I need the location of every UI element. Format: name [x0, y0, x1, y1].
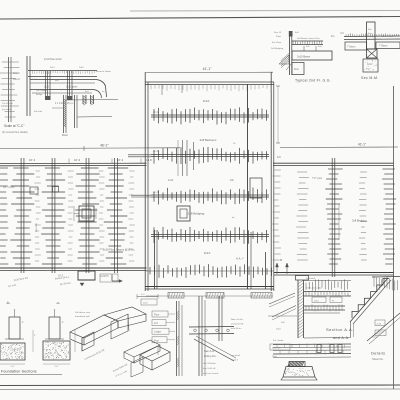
svg-text:46'-1": 46'-1": [100, 144, 109, 148]
svg-text:2x8 Bridging: 2x8 Bridging: [271, 47, 284, 50]
svg-text:see detail: see detail: [231, 354, 240, 357]
svg-text:Fin. Floor: Fin. Floor: [272, 41, 282, 44]
svg-text:41'-1": 41'-1": [358, 143, 366, 147]
svg-text:Foundation Sections: Foundation Sections: [1, 370, 37, 374]
svg-text:2x8 Beams above Post: 2x8 Beams above Post: [297, 37, 320, 40]
svg-text:sheet 3: sheet 3: [231, 359, 239, 362]
svg-text:Conc: Conc: [367, 64, 373, 66]
svg-text:2x10 Plate Girder: 2x10 Plate Girder: [44, 58, 62, 61]
svg-text:Plate: Plate: [272, 355, 278, 358]
svg-text:Post: Post: [154, 339, 159, 342]
svg-text:pier below: pier below: [2, 108, 12, 111]
svg-text:2x10: 2x10: [203, 99, 210, 103]
svg-text:M: M: [280, 258, 282, 262]
svg-text:2x10 Floor Beams @16 o.c.: 2x10 Floor Beams @16 o.c.: [103, 248, 135, 252]
svg-text:2x10: 2x10: [143, 303, 149, 305]
svg-text:2x10: 2x10: [79, 67, 85, 69]
svg-text:2x8 Ledger: 2x8 Ledger: [36, 89, 47, 92]
svg-text:2x8 Bedroom: 2x8 Bedroom: [200, 138, 217, 142]
svg-text:Typical 2nd Fl. G.G.: Typical 2nd Fl. G.G.: [295, 79, 331, 83]
svg-text:hall: hall: [230, 180, 234, 182]
svg-text:2x10: 2x10: [204, 251, 211, 255]
svg-text:2x10 Joists 16oc: 2x10 Joists 16oc: [306, 287, 323, 290]
svg-text:Note: all sills: Note: all sills: [231, 318, 243, 321]
svg-text:3x12: 3x12: [50, 67, 56, 69]
svg-text:foundation wall: foundation wall: [75, 315, 90, 318]
svg-text:Sec A.A.: Sec A.A.: [204, 349, 215, 353]
svg-text:and A.A.: and A.A.: [333, 336, 350, 340]
svg-text:21'-2: 21'-2: [153, 112, 159, 114]
svg-text:4x6 sole: 4x6 sole: [34, 111, 43, 113]
svg-text:anchored 5/8: anchored 5/8: [231, 323, 244, 326]
svg-text:Found: Found: [13, 79, 20, 81]
svg-text:14-8: 14-8: [146, 158, 152, 162]
svg-text:2x8 Bridging: 2x8 Bridging: [352, 219, 367, 223]
svg-text:2'-0": 2'-0": [54, 366, 59, 368]
svg-text:21'-2: 21'-2: [153, 231, 159, 233]
svg-text:A.A.↗: A.A.↗: [236, 257, 244, 261]
svg-text:2 x 4 Studs 16 o.c.: 2 x 4 Studs 16 o.c.: [55, 102, 74, 105]
svg-text:and conc found.: and conc found.: [203, 373, 219, 375]
svg-text:Floor: Floor: [276, 35, 281, 38]
svg-text:7'x7' post: 7'x7' post: [312, 177, 322, 180]
svg-text:No. 1 Com: No. 1 Com: [3, 186, 14, 189]
svg-text:Ledger: Ledger: [154, 331, 161, 334]
svg-text:Fl.: Fl.: [332, 300, 335, 302]
svg-text:2x10: 2x10: [276, 329, 282, 331]
svg-text:Details: Details: [371, 352, 385, 356]
svg-text:Post: Post: [294, 68, 299, 71]
svg-text:2x8 above conc: 2x8 above conc: [75, 312, 91, 314]
svg-text:3x12: 3x12: [44, 87, 50, 89]
svg-text:2'-0": 2'-0": [10, 366, 15, 368]
svg-text:Stud wall: Stud wall: [306, 277, 315, 280]
svg-text:Sheet No.: Sheet No.: [372, 357, 384, 361]
svg-text:16'-3: 16'-3: [117, 158, 124, 162]
svg-text:Bolting Det.: Bolting Det.: [204, 355, 217, 358]
svg-text:Conc: Conc: [13, 73, 19, 75]
svg-text:Section A.A.: Section A.A.: [326, 327, 354, 332]
svg-text:Floor: Floor: [154, 314, 159, 317]
svg-text:12x12 conc: 12x12 conc: [2, 103, 14, 105]
svg-text:41'-1": 41'-1": [203, 67, 212, 71]
svg-text:Scale at "C-C": Scale at "C-C": [4, 124, 24, 128]
svg-text:(for second floor details): (for second floor details): [2, 131, 28, 134]
svg-text:16'-3: 16'-3: [74, 158, 81, 162]
svg-text:4x10: 4x10: [32, 79, 38, 81]
svg-text:21'-2: 21'-2: [153, 192, 159, 194]
svg-text:2x10: 2x10: [168, 179, 174, 182]
svg-text:21'-2: 21'-2: [153, 151, 159, 153]
svg-text:Floor: Floor: [62, 133, 68, 137]
svg-text:Beam to Girder: Beam to Girder: [96, 70, 111, 73]
svg-text:thru 2x10 sill: thru 2x10 sill: [203, 367, 216, 370]
svg-text:Sec M.M.: Sec M.M.: [361, 76, 379, 80]
svg-text:7' Beam: 7' Beam: [347, 47, 355, 49]
svg-text:Bridge: Bridge: [36, 93, 43, 96]
svg-text:2x10 Beam: 2x10 Beam: [297, 55, 310, 59]
svg-text:bolts 4ft o.c.: bolts 4ft o.c.: [231, 327, 243, 330]
svg-text:8": 8": [62, 322, 64, 324]
svg-text:Fin. Grade: Fin. Grade: [273, 339, 284, 342]
svg-text:Fin.: Fin.: [331, 35, 335, 38]
svg-text:2x10: 2x10: [314, 300, 320, 302]
svg-text:16'-3: 16'-3: [29, 158, 36, 162]
svg-text:Fl jst: Fl jst: [377, 332, 382, 335]
svg-text:7' Beam: 7' Beam: [379, 46, 387, 48]
svg-text:Use 5/8 bolts: Use 5/8 bolts: [203, 362, 217, 365]
svg-text:2x10 DW: 2x10 DW: [36, 222, 38, 232]
svg-text:8": 8": [22, 322, 24, 324]
svg-text:Stru. Fl.: Stru. Fl.: [274, 31, 282, 34]
svg-text:2x8 Bridging: 2x8 Bridging: [188, 212, 205, 216]
svg-text:2x10 Sill: 2x10 Sill: [272, 348, 281, 350]
